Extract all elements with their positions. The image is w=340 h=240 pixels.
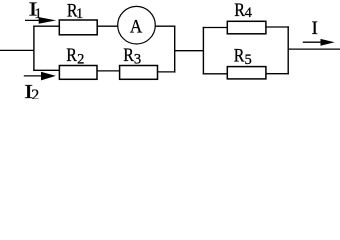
svg-text:5: 5: [245, 52, 252, 68]
wire output right: [288, 48, 340, 50]
svg-text:I: I: [312, 18, 318, 39]
label I1: [29, 0, 38, 20]
wire input left: [0, 49, 35, 51]
wire ammeter to bus1: [155, 25, 175, 27]
svg-text:R: R: [234, 44, 245, 66]
svg-text:R: R: [234, 0, 245, 20]
wire left bus vertical: [33, 26, 35, 71]
wire R1 to ammeter: [97, 25, 118, 27]
resistor R2: [59, 66, 97, 80]
wire bus2 to R4: [203, 27, 228, 29]
wire bus1 vertical: [174, 26, 176, 73]
svg-text:4: 4: [245, 5, 253, 21]
label A ammeter: [130, 16, 142, 37]
wire R3 to bus1: [158, 71, 176, 73]
wire bottom branch to R2: [33, 69, 59, 71]
wire R5 to bus3: [266, 73, 289, 75]
arrow I1: [25, 17, 56, 24]
wire bus2 vertical: [202, 27, 204, 75]
label R3: [123, 44, 134, 66]
resistor R3: [120, 66, 158, 80]
svg-text:1: 1: [76, 6, 83, 22]
resistor R1: [59, 20, 97, 35]
label R4: [234, 0, 245, 20]
wire R4 to bus3: [266, 26, 289, 28]
resistor R5: [227, 67, 266, 79]
wire bus2 to R5: [203, 73, 228, 75]
wire bus3 vertical: [287, 26, 289, 74]
label R5: [234, 44, 245, 66]
wire R2 to R3: [97, 70, 120, 72]
svg-text:2: 2: [77, 52, 84, 68]
wire middle connector bus1 to bus2: [174, 50, 204, 52]
svg-text:R: R: [66, 44, 77, 66]
svg-text:A: A: [130, 16, 142, 37]
svg-text:3: 3: [134, 52, 141, 68]
ammeter U1 circle: [118, 6, 156, 44]
label R2: [66, 44, 77, 66]
arrow I output: [303, 39, 335, 46]
svg-text:R: R: [123, 44, 134, 66]
arrow I2: [24, 72, 56, 81]
label I2: [24, 81, 33, 103]
resistor R4: [227, 21, 266, 34]
label R1: [67, 0, 78, 21]
wire top branch to R1: [33, 25, 59, 27]
svg-text:2: 2: [31, 87, 39, 99]
